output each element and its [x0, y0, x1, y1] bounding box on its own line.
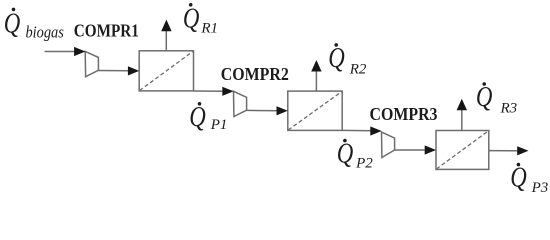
wire cooler2 to comp3 [342, 129, 373, 131]
svg-text:R3: R3 [500, 101, 518, 117]
arrowhead into COMPR2 [222, 87, 233, 96]
arrowhead into box 2 [277, 106, 288, 115]
svg-text:Q: Q [4, 8, 21, 39]
heat exchanger box 2 [288, 91, 342, 130]
arrowhead vent 1 up [161, 20, 171, 32]
wire cooler1 vent up [165, 31, 167, 51]
wire cooler2 vent up [315, 71, 317, 92]
svg-text:COMPR3: COMPR3 [370, 104, 438, 124]
compressor COMPR3 [382, 132, 395, 157]
svg-text:Q: Q [189, 102, 206, 133]
heat exchanger box 3 [436, 131, 489, 170]
wire biogas inlet [45, 51, 77, 53]
svg-text:R2: R2 [349, 61, 367, 77]
svg-text:Q: Q [476, 82, 493, 113]
svg-text:P1: P1 [210, 117, 228, 133]
svg-text:P3: P3 [531, 180, 549, 196]
svg-text:COMPR1: COMPR1 [74, 21, 139, 41]
wire cooler3 vent up [461, 110, 463, 131]
arrowhead outlet P3 [517, 146, 528, 155]
svg-text:Q: Q [510, 163, 527, 194]
compressor COMPR1 [85, 51, 98, 76]
heat exchanger box 1 [139, 51, 193, 91]
svg-text:biogas: biogas [26, 23, 65, 42]
arrowhead into box 3 [425, 145, 436, 154]
arrowhead vent 3 up [457, 99, 467, 110]
dashed diagonal box 3 [436, 131, 488, 169]
wire comp3 to cooler3 [395, 149, 428, 151]
dashed diagonal box 1 [140, 51, 194, 90]
svg-text:Q: Q [337, 138, 354, 169]
compressor COMPR2 [234, 91, 247, 116]
wire cooler3 outlet [489, 150, 520, 152]
svg-text:R1: R1 [200, 21, 218, 37]
dashed diagonal box 2 [288, 92, 342, 131]
svg-text:Q: Q [183, 4, 200, 35]
svg-text:COMPR2: COMPR2 [221, 64, 289, 84]
arrowhead into box 1 [128, 66, 139, 75]
wire comp1 to cooler1 [98, 70, 130, 72]
wire cooler1 to comp2 [194, 90, 226, 92]
svg-text:P2: P2 [355, 156, 373, 172]
arrowhead vent 2 up [311, 60, 321, 72]
svg-text:Q: Q [328, 43, 345, 74]
arrowhead into COMPR3 [370, 126, 381, 135]
arrowhead inlet to COMPR1 [74, 47, 85, 56]
wire comp2 to cooler2 [247, 109, 280, 111]
